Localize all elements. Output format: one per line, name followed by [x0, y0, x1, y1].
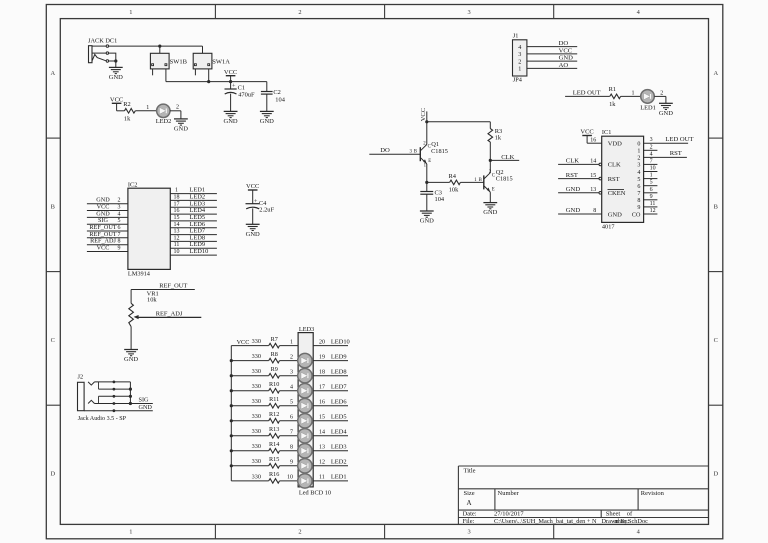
svg-text:R7: R7	[271, 336, 278, 343]
svg-text:3: 3	[650, 137, 653, 143]
svg-text:17: 17	[174, 201, 180, 207]
svg-text:GND: GND	[260, 118, 274, 125]
svg-text:1: 1	[650, 173, 653, 179]
svg-text:SIG: SIG	[139, 397, 150, 404]
svg-text:19: 19	[319, 354, 325, 360]
svg-text:R8: R8	[271, 351, 278, 358]
svg-text:9: 9	[118, 246, 121, 252]
svg-text:6: 6	[290, 414, 293, 420]
svg-text:7: 7	[118, 232, 121, 238]
svg-text:0: 0	[637, 142, 640, 148]
svg-text:6: 6	[118, 225, 121, 231]
svg-text:10: 10	[287, 475, 293, 481]
svg-text:3: 3	[518, 51, 521, 58]
svg-text:330: 330	[252, 383, 261, 390]
svg-text:GND: GND	[559, 55, 574, 62]
svg-text:Size: Size	[464, 490, 475, 497]
svg-text:B: B	[51, 204, 55, 211]
svg-text:R2: R2	[123, 101, 130, 108]
svg-text:2: 2	[660, 91, 663, 97]
svg-text:D: D	[713, 471, 718, 478]
svg-text:VCC: VCC	[246, 183, 259, 190]
svg-text:17: 17	[319, 384, 325, 390]
svg-text:330: 330	[252, 398, 261, 405]
svg-text:VDD: VDD	[608, 141, 622, 148]
svg-text:GND: GND	[566, 207, 581, 214]
svg-text:1: 1	[129, 9, 132, 16]
svg-text:DO: DO	[559, 40, 569, 47]
svg-text:RST: RST	[608, 176, 620, 183]
svg-text:R16: R16	[269, 471, 279, 478]
svg-text:5: 5	[650, 180, 653, 186]
svg-text:C1815: C1815	[431, 148, 448, 155]
svg-text:3: 3	[637, 163, 640, 169]
svg-text:10: 10	[650, 166, 656, 172]
svg-text:GND: GND	[566, 186, 581, 193]
svg-text:R14: R14	[269, 441, 279, 448]
svg-text:LED2: LED2	[156, 118, 172, 125]
svg-text:330: 330	[252, 413, 261, 420]
svg-text:C1: C1	[238, 85, 245, 92]
svg-text:R12: R12	[269, 411, 279, 418]
svg-text:LED7: LED7	[331, 383, 347, 390]
svg-text:2: 2	[650, 144, 653, 150]
svg-text:IC1: IC1	[602, 129, 611, 136]
svg-text:A: A	[50, 70, 55, 77]
svg-text:1: 1	[632, 91, 635, 97]
svg-text:LED5: LED5	[331, 413, 347, 420]
svg-text:14: 14	[174, 222, 180, 228]
svg-text:3: 3	[290, 369, 293, 375]
svg-text:GND: GND	[608, 211, 622, 218]
svg-text:B: B	[414, 150, 417, 155]
svg-text:1k: 1k	[124, 115, 131, 122]
svg-text:LED10: LED10	[190, 248, 209, 255]
svg-text:12: 12	[650, 208, 656, 214]
svg-text:3: 3	[467, 529, 470, 536]
svg-text:15: 15	[174, 215, 180, 221]
svg-text:4: 4	[518, 44, 521, 51]
svg-text:5: 5	[637, 177, 640, 183]
svg-text:2: 2	[176, 104, 179, 110]
svg-text:R11: R11	[269, 396, 279, 403]
svg-text:GND: GND	[109, 74, 123, 81]
svg-text:LED2: LED2	[331, 459, 347, 466]
svg-text:LED1: LED1	[331, 474, 347, 481]
svg-text:11: 11	[174, 242, 180, 248]
svg-text:GND: GND	[246, 231, 260, 238]
svg-text:RST: RST	[670, 150, 682, 157]
svg-text:LED8: LED8	[331, 368, 347, 375]
svg-text:VCC: VCC	[559, 47, 573, 54]
svg-text:CKEN: CKEN	[608, 190, 626, 197]
svg-text:+: +	[254, 198, 258, 205]
svg-text:1k: 1k	[495, 135, 502, 142]
svg-text:VCC: VCC	[420, 108, 427, 121]
svg-text:104: 104	[275, 97, 285, 104]
svg-text:B: B	[714, 204, 718, 211]
svg-text:330: 330	[252, 338, 261, 345]
svg-text:11: 11	[650, 201, 656, 207]
svg-text:LED1: LED1	[640, 105, 656, 112]
svg-text:7: 7	[650, 158, 653, 164]
svg-text:LED OUT: LED OUT	[573, 90, 601, 97]
svg-text:3: 3	[118, 205, 121, 211]
svg-text:GND: GND	[224, 118, 238, 125]
svg-text:CLK: CLK	[566, 158, 579, 165]
svg-text:8: 8	[637, 198, 640, 204]
svg-text:7: 7	[637, 191, 640, 197]
svg-text:LED6: LED6	[331, 398, 347, 405]
svg-text:Date:: Date:	[463, 511, 477, 518]
svg-text:C: C	[492, 173, 495, 178]
svg-text:18: 18	[174, 194, 180, 200]
svg-text:1: 1	[518, 66, 521, 73]
svg-text:1: 1	[637, 149, 640, 155]
svg-text:JACK DC1: JACK DC1	[88, 38, 117, 45]
svg-text:12: 12	[319, 460, 325, 466]
svg-text:4017: 4017	[602, 223, 615, 230]
svg-text:LED4: LED4	[331, 429, 347, 436]
svg-text:8: 8	[118, 239, 121, 245]
svg-text:GND: GND	[659, 110, 673, 117]
svg-text:JP4: JP4	[513, 77, 523, 84]
svg-text:RST: RST	[566, 172, 578, 179]
svg-text:11: 11	[319, 475, 325, 481]
svg-text:13: 13	[319, 445, 325, 451]
svg-text:4: 4	[290, 384, 293, 390]
svg-text:Title: Title	[464, 468, 476, 475]
svg-text:LED9: LED9	[331, 353, 347, 360]
svg-text:R10: R10	[269, 381, 279, 388]
svg-text:2.2uF: 2.2uF	[259, 207, 274, 214]
svg-text:10k: 10k	[147, 297, 157, 304]
svg-text:20: 20	[319, 339, 325, 345]
svg-text:J1: J1	[513, 32, 519, 39]
svg-text:REF_OUT: REF_OUT	[159, 283, 187, 290]
svg-text:5: 5	[118, 218, 121, 224]
svg-text:SW1A: SW1A	[212, 58, 230, 65]
svg-text:330: 330	[252, 443, 261, 450]
svg-text:2: 2	[518, 58, 521, 65]
svg-text:CLK: CLK	[608, 162, 621, 169]
svg-text:Number: Number	[498, 490, 520, 497]
svg-text:4: 4	[637, 170, 640, 176]
svg-text:CO: CO	[632, 212, 641, 218]
svg-text:9: 9	[290, 460, 293, 466]
svg-text:GND: GND	[174, 126, 188, 133]
svg-text:+: +	[232, 82, 236, 89]
svg-text:C1815: C1815	[496, 176, 513, 183]
svg-text:16: 16	[319, 399, 325, 405]
svg-text:nhac.SchDoc: nhac.SchDoc	[615, 518, 649, 525]
svg-text:C:\Users\..\SUH_Mach_bai_tat_d: C:\Users\..\SUH_Mach_bai_tat_den + N	[494, 518, 597, 525]
svg-text:GND: GND	[420, 218, 434, 225]
svg-text:J2: J2	[78, 373, 84, 380]
svg-text:18: 18	[319, 369, 325, 375]
svg-text:7: 7	[290, 430, 293, 436]
svg-text:GND: GND	[483, 209, 497, 216]
svg-text:9: 9	[637, 205, 640, 211]
svg-text:2: 2	[118, 198, 121, 204]
svg-text:LM3914: LM3914	[128, 270, 151, 277]
svg-text:13: 13	[590, 187, 596, 193]
svg-text:C: C	[714, 337, 718, 344]
svg-text:14: 14	[319, 430, 325, 436]
svg-text:File:: File:	[463, 518, 475, 525]
svg-text:1: 1	[129, 529, 132, 536]
svg-text:CLK: CLK	[501, 154, 514, 161]
svg-text:VCC: VCC	[237, 339, 250, 346]
svg-text:Jack Audio 3.5 - SP: Jack Audio 3.5 - SP	[78, 416, 127, 422]
svg-text:3: 3	[467, 9, 470, 16]
svg-text:Sheet of: Sheet of	[606, 511, 633, 518]
svg-text:104: 104	[435, 196, 445, 203]
svg-text:DO: DO	[380, 147, 390, 154]
svg-text:C2: C2	[273, 89, 280, 96]
svg-text:330: 330	[252, 368, 261, 375]
svg-text:10k: 10k	[449, 187, 459, 194]
svg-text:1: 1	[290, 339, 293, 345]
svg-text:330: 330	[252, 428, 261, 435]
svg-text:VCC: VCC	[110, 97, 123, 104]
svg-text:VCC: VCC	[224, 69, 237, 76]
svg-text:Revision: Revision	[641, 490, 665, 497]
svg-text:AO: AO	[559, 62, 569, 69]
svg-text:6: 6	[650, 187, 653, 193]
svg-text:9: 9	[650, 194, 653, 200]
svg-text:SW1B: SW1B	[170, 58, 188, 65]
svg-text:13: 13	[174, 229, 180, 235]
svg-text:4: 4	[118, 211, 121, 217]
svg-text:4: 4	[650, 151, 653, 157]
svg-text:R9: R9	[271, 366, 278, 373]
svg-text:15: 15	[319, 414, 325, 420]
svg-text:10: 10	[174, 249, 180, 255]
svg-text:330: 330	[252, 473, 261, 480]
svg-text:A: A	[467, 499, 472, 507]
svg-text:2: 2	[637, 156, 640, 162]
svg-text:VCC: VCC	[97, 245, 110, 252]
svg-text:8: 8	[290, 445, 293, 451]
svg-text:R4: R4	[449, 173, 457, 180]
svg-text:REF_ADJ: REF_ADJ	[156, 311, 183, 318]
svg-text:15: 15	[590, 173, 596, 179]
svg-text:VCC: VCC	[580, 129, 593, 136]
svg-text:Led BCD 10: Led BCD 10	[299, 490, 331, 497]
svg-text:R15: R15	[269, 456, 279, 463]
svg-text:2: 2	[298, 9, 301, 16]
svg-text:D: D	[50, 471, 55, 478]
svg-text:1k: 1k	[609, 101, 616, 108]
svg-text:14: 14	[590, 159, 596, 165]
svg-text:LED3: LED3	[299, 326, 314, 333]
svg-text:1: 1	[146, 105, 149, 111]
svg-text:330: 330	[252, 353, 261, 360]
svg-text:1: 1	[175, 188, 178, 194]
svg-text:A: A	[713, 70, 718, 77]
svg-text:2: 2	[290, 354, 293, 360]
svg-text:8: 8	[593, 208, 596, 214]
svg-text:5: 5	[290, 399, 293, 405]
svg-text:R13: R13	[269, 426, 279, 433]
svg-text:GND: GND	[139, 404, 153, 411]
svg-text:6: 6	[637, 184, 640, 190]
svg-text:R1: R1	[609, 86, 616, 93]
svg-text:16: 16	[174, 208, 180, 214]
svg-text:470uF: 470uF	[238, 92, 255, 99]
svg-text:27/10/2017: 27/10/2017	[494, 511, 524, 518]
svg-text:LED OUT: LED OUT	[665, 136, 693, 143]
svg-text:GND: GND	[124, 356, 138, 363]
svg-text:C: C	[51, 337, 55, 344]
svg-text:16: 16	[590, 138, 596, 144]
svg-text:IC2: IC2	[128, 181, 137, 188]
svg-text:E: E	[492, 188, 495, 193]
svg-text:2: 2	[298, 529, 301, 536]
svg-text:12: 12	[174, 235, 180, 241]
svg-text:LED3: LED3	[331, 444, 347, 451]
svg-text:330: 330	[252, 458, 261, 465]
svg-text:LED10: LED10	[331, 338, 350, 345]
svg-text:E: E	[428, 159, 431, 164]
